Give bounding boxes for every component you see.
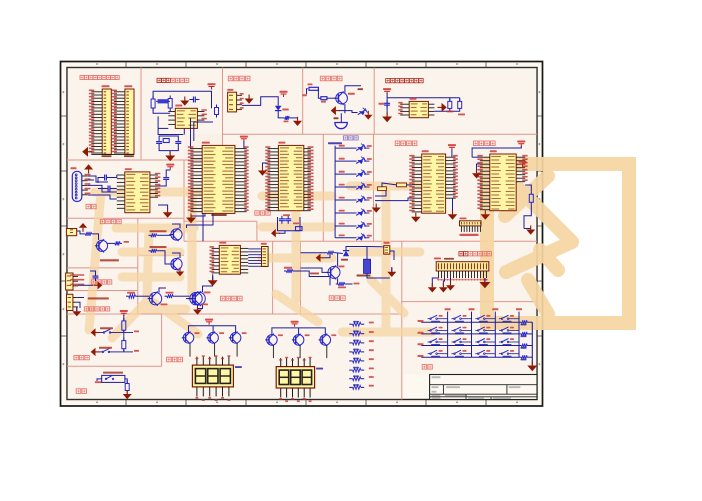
wire: [153, 91, 211, 108]
capacitor C1: [189, 99, 193, 101]
display pins: [280, 358, 282, 367]
EEPROM IC U3: [409, 101, 428, 117]
motor driver right pins: [240, 247, 248, 249]
VCC symbol: [280, 91, 288, 93]
wire: [248, 248, 261, 250]
7-segment display module: [192, 365, 233, 387]
block title 温度传感器: [84, 307, 88, 311]
switch S1: [98, 332, 104, 334]
wire: [110, 332, 124, 334]
block title 主控芯: [255, 211, 259, 215]
crystal Y1: [163, 139, 169, 143]
transistor Q5: [192, 292, 205, 305]
LED D2: [359, 111, 365, 115]
margin zone labels: [96, 63, 98, 65]
wire: [278, 111, 283, 118]
latch IC U4: [278, 145, 303, 210]
VCC symbol: [517, 141, 525, 143]
capacitor C2: [158, 139, 160, 142]
power arrow: [82, 228, 84, 232]
IR LED part: [66, 229, 76, 236]
wire: [367, 273, 390, 278]
watermark char 2: [262, 174, 432, 332]
transistor Q6: [328, 266, 340, 278]
label VCC: [95, 381, 102, 383]
watermark char 1: [89, 192, 205, 338]
transistor Q8: [190, 292, 202, 304]
block title 单片机在线编程接口: [80, 76, 84, 80]
relay connector J6: [384, 246, 390, 255]
ADC IC U5 right pins: [446, 156, 456, 158]
block title: [74, 355, 78, 359]
trimmer RV1: [378, 187, 387, 191]
connector J2 header strip: [125, 89, 134, 154]
MAX232 IC U7: [125, 172, 150, 213]
wire: [345, 111, 358, 113]
power ground arrow: [431, 283, 433, 287]
MCU IC U1 left pins: [190, 148, 202, 150]
power ground arrow: [167, 208, 169, 212]
resistor R14: [284, 270, 287, 272]
capacitor C3: [177, 139, 179, 142]
VCC symbol: [120, 310, 128, 312]
wire: [91, 154, 134, 156]
DAC IC U6 left pins: [480, 156, 490, 158]
power ground arrow: [126, 390, 128, 394]
wire: [77, 231, 83, 234]
VCC symbol: [240, 136, 248, 138]
LED D9: [335, 225, 356, 227]
block title 报警电路: [320, 76, 325, 81]
VCC symbol: [208, 83, 216, 85]
power arrow: [179, 268, 181, 272]
resistor R21: [126, 381, 128, 384]
power ground arrow: [375, 204, 377, 208]
display driver transistors: [267, 335, 278, 346]
capacitor C6: [104, 188, 108, 190]
wire: [327, 97, 336, 99]
MAX232 left pins: [117, 174, 125, 176]
resistor R8: [459, 98, 461, 101]
LCD connector J202: [436, 262, 489, 271]
power arrow: [88, 151, 92, 153]
power arrow: [248, 95, 250, 99]
block title 流水灯: [343, 136, 347, 140]
border zone ticks: [125, 62, 127, 68]
ADC IC U5 left pins: [412, 156, 422, 158]
wire: [88, 176, 108, 182]
keypad row wires: [421, 321, 519, 323]
power arrow: [262, 167, 264, 171]
wire: [191, 213, 205, 216]
resistor R16: [336, 283, 339, 285]
wire: [159, 136, 178, 139]
block title 继电器: [329, 296, 334, 301]
wire: [432, 278, 438, 287]
wire: [153, 108, 170, 113]
resistor R10: [83, 233, 86, 235]
resistor R4: [283, 117, 285, 119]
schematic sheet: [61, 62, 543, 407]
power ground arrow: [531, 362, 533, 366]
resistor R18: [165, 295, 168, 297]
block title 红外接收: [91, 280, 95, 284]
MCU IC U1 right pins: [235, 148, 247, 150]
connector DB9 serial: [72, 171, 82, 201]
transistor Q2: [96, 240, 107, 251]
title block: [430, 375, 537, 400]
capacitor C7: [165, 175, 167, 178]
wire: [123, 315, 125, 321]
block title J202液晶接口: [459, 252, 463, 256]
connector J4 header: [460, 221, 482, 226]
capacitor C5: [101, 177, 105, 179]
connector J1 header strip: [102, 89, 111, 154]
power ground arrow: [212, 276, 214, 280]
RTC IC U2: [175, 108, 197, 128]
display driver transistors: [183, 333, 194, 344]
block title 红外发送: [100, 219, 104, 223]
wire: [434, 110, 459, 112]
VCC symbol: [519, 161, 527, 163]
capacitor C9: [95, 273, 97, 276]
block title 复位: [76, 389, 81, 394]
power ground arrow: [530, 226, 532, 230]
wire: [187, 213, 214, 228]
title block text: [432, 376, 441, 378]
power arrow: [321, 257, 325, 259]
latch IC U4 right pins: [304, 148, 311, 150]
block tint backgrounds: [67, 68, 537, 400]
watermark char 3: [487, 164, 629, 323]
battery BT1: [158, 99, 169, 103]
keypad column wires: [447, 312, 449, 358]
motor driver left pins: [212, 247, 220, 249]
power ground arrow: [76, 307, 78, 311]
connector J3 pins: [237, 94, 242, 96]
segment resistors: [349, 323, 352, 325]
block title 电机驱动: [220, 296, 225, 301]
VCC symbol: [448, 144, 456, 146]
block title 键盘: [422, 365, 427, 370]
IR receiver pins: [73, 276, 78, 278]
wire: [203, 286, 214, 292]
LED D7: [335, 199, 356, 201]
LED D4: [335, 160, 356, 162]
wire: [97, 379, 102, 381]
capacitor C4: [386, 100, 388, 103]
wire: [345, 86, 361, 93]
DAC IC U6 right pins: [516, 156, 525, 158]
DAC IC U6: [490, 154, 516, 211]
wire: [307, 89, 308, 95]
wire: [291, 117, 298, 119]
connector J3 power: [228, 92, 237, 112]
block title RCC实时时钟: [157, 78, 161, 82]
power ground arrow: [169, 152, 171, 156]
power ground arrow: [484, 210, 486, 214]
power ground arrow: [386, 113, 388, 117]
MAX232 right pins: [150, 174, 158, 176]
wire: [295, 271, 330, 285]
wire: [386, 93, 388, 116]
wire: [346, 247, 367, 260]
power arrow: [88, 170, 90, 174]
wire: [242, 97, 278, 106]
resistor R6: [321, 97, 327, 100]
resistor R3: [216, 105, 218, 108]
wire: [375, 191, 386, 196]
display pins: [196, 357, 198, 366]
MCU IC U1: [202, 145, 235, 213]
resistor R7: [449, 98, 451, 101]
relay coil K1: [364, 259, 371, 273]
wire: [531, 322, 533, 365]
ADC IC U5: [422, 154, 446, 213]
wire: [190, 118, 192, 149]
wire: [301, 268, 329, 272]
wire: [472, 146, 521, 157]
diode D11: [343, 251, 349, 257]
keypad switches: [430, 318, 432, 320]
section divider lines: [67, 68, 537, 400]
power arrow: [184, 97, 186, 101]
resistor R9: [530, 191, 532, 194]
VCC symbol: [166, 164, 174, 166]
power arrow: [96, 332, 100, 334]
LED D6: [335, 186, 356, 188]
power arrow: [96, 351, 100, 353]
LED D5: [335, 173, 356, 175]
crystal circuit: [278, 217, 301, 231]
power arrow: [452, 210, 454, 214]
resistor R19: [123, 318, 125, 321]
resistor R20: [123, 338, 125, 341]
connector J2 pins: [114, 91, 125, 93]
power ground arrow: [391, 268, 393, 272]
switch S2: [98, 351, 103, 353]
resistor R1: [152, 96, 154, 99]
temp sensor pins: [73, 297, 78, 299]
power arrow: [297, 117, 299, 121]
LED bus wire: [334, 146, 336, 238]
resistor R11: [113, 242, 115, 244]
block title 串口: [86, 204, 91, 209]
label P1红外发送: [100, 259, 119, 261]
resistor R2: [169, 96, 171, 99]
block title 电源接口: [228, 76, 233, 81]
resistor R13: [149, 250, 151, 252]
LCD connector pins: [438, 271, 440, 278]
block title 数码管: [167, 357, 172, 362]
power arrow: [276, 232, 280, 234]
diode D1: [275, 106, 282, 111]
transistor Q3: [171, 229, 182, 240]
7-segment display module: [276, 367, 314, 388]
latch IC U4 left pins: [268, 148, 279, 150]
inner border frame: [67, 68, 537, 400]
label: [88, 297, 109, 299]
wire: [525, 185, 531, 191]
temp sensor connector: [67, 294, 73, 310]
power ground arrow: [190, 214, 192, 218]
motor connector J5: [262, 247, 269, 267]
block title 外部四位字存储器: [386, 79, 390, 83]
wire: [272, 328, 325, 335]
block title 数模转换: [473, 141, 478, 146]
DB9 pins: [82, 175, 88, 177]
resistor R17: [126, 295, 129, 297]
LED D8: [335, 212, 356, 214]
power arrow: [197, 306, 199, 310]
wire: [301, 252, 326, 254]
resistor R5: [309, 87, 318, 90]
wire: [449, 98, 451, 102]
transistor Q1: [336, 92, 348, 104]
power arrow: [438, 106, 442, 108]
wire: [189, 326, 236, 333]
connector J1 pins: [91, 91, 102, 93]
power arrow: [367, 111, 369, 115]
power arrow: [476, 169, 478, 173]
power arrow: [94, 284, 98, 286]
LED D3: [335, 147, 356, 149]
power ground arrow: [415, 213, 417, 217]
resistor R15: [325, 252, 328, 254]
power arrow: [484, 278, 486, 282]
wire: [109, 351, 124, 353]
VCC symbol: [383, 88, 391, 90]
speaker LS1: [340, 113, 342, 122]
transistor Q7: [149, 292, 161, 304]
reset switch S5: [102, 375, 125, 382]
IR receiver module: [66, 273, 73, 290]
resistor R12: [149, 234, 151, 236]
power arrow: [336, 110, 340, 112]
motor driver IC U8: [219, 245, 240, 274]
keypad row resistors: [519, 321, 521, 323]
LED D10: [335, 237, 356, 239]
wire: [98, 178, 101, 184]
block title 模数转换: [395, 141, 400, 146]
transistor Q4: [171, 258, 182, 269]
